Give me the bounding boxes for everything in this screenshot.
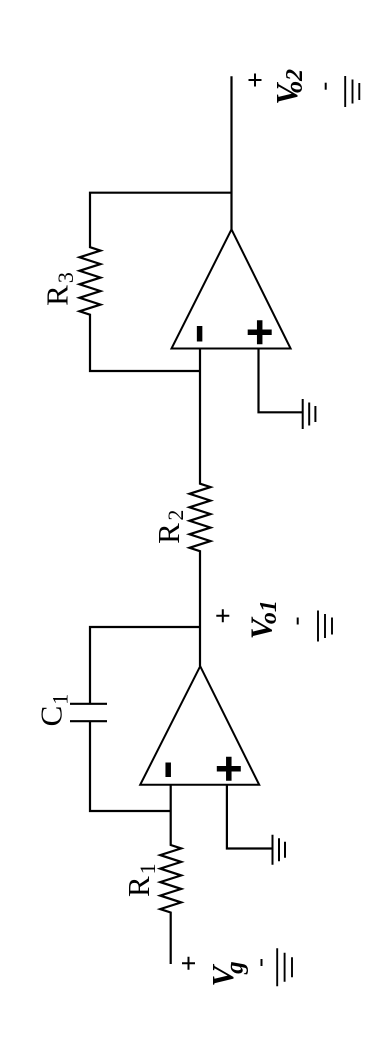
svg-text:C1: C1 [34, 694, 73, 727]
svg-text:R1: R1 [121, 863, 160, 897]
svg-text:Vo2: Vo2 [269, 69, 308, 105]
svg-text:R3: R3 [39, 272, 78, 306]
svg-text:Vg: Vg [205, 961, 249, 986]
svg-text:R2: R2 [151, 510, 188, 544]
svg-text:Vo1: Vo1 [244, 600, 283, 639]
